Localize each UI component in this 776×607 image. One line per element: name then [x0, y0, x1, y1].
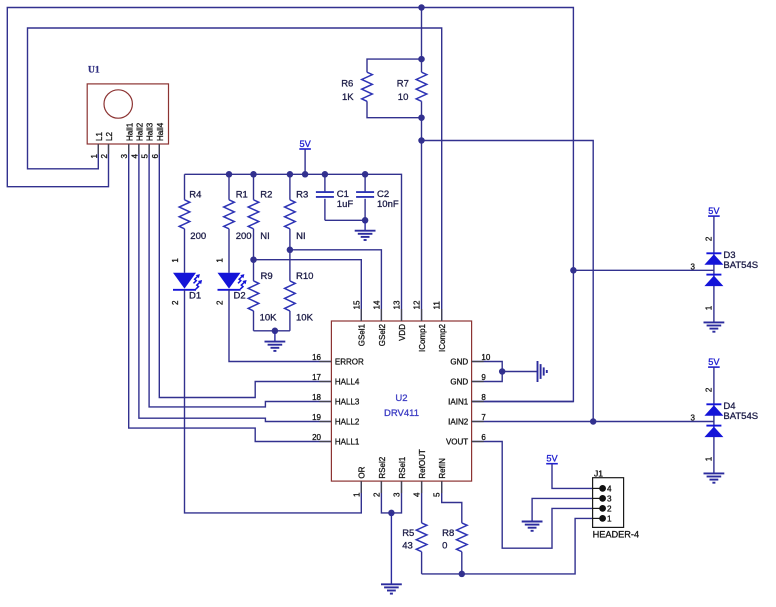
node junction GND pins [499, 368, 506, 375]
svg-text:1: 1 [171, 258, 180, 263]
pin 6 stub of U1 [158, 144, 160, 154]
node junction R1 [226, 171, 233, 178]
svg-text:GND: GND [450, 378, 468, 387]
node junction R9 R10 ground [272, 328, 279, 335]
svg-text:RSel2: RSel2 [378, 456, 387, 478]
wire D2 cathode to ERROR pin [229, 290, 331, 362]
node junction IAIN2 [590, 418, 597, 425]
pin 15 GSel1 of U2 top [360, 309, 362, 321]
svg-text:NI: NI [296, 231, 306, 242]
wire IAIN1 to tall vertical [472, 401, 574, 403]
svg-text:2: 2 [607, 505, 612, 514]
wire R3 column [289, 174, 291, 200]
node junction C1 C2 ground [362, 217, 369, 224]
wire 5V stem [304, 149, 306, 174]
node junction tall vertical to D3 [570, 267, 577, 274]
node junction RSel ground [388, 510, 395, 517]
svg-text:R2: R2 [260, 190, 272, 201]
wire HALL2 net U1 pin4 to U2 pin19 [139, 144, 332, 422]
wire header pin 3 to ground [532, 498, 593, 521]
svg-text:1: 1 [90, 153, 99, 158]
wire R9 R10 bottom join [254, 330, 290, 332]
svg-text:6: 6 [151, 153, 160, 158]
pin 19 HALL2 of U2 left [319, 421, 331, 423]
pin 9 GND of U2 right [472, 381, 484, 383]
svg-text:5V: 5V [546, 454, 558, 464]
svg-text:1uF: 1uF [337, 199, 354, 210]
LED D1 [173, 273, 196, 289]
svg-text:D2: D2 [234, 290, 246, 301]
wire inner loop from U1 pin 1 to IComp2 [28, 28, 442, 321]
svg-text:2: 2 [705, 236, 714, 241]
svg-text:8: 8 [481, 393, 486, 402]
svg-text:BAT54S: BAT54S [723, 411, 758, 422]
ground right of GND pins [537, 361, 539, 382]
wire IAIN2 to D4 pin 3 [472, 421, 714, 423]
wire RefIN jog to R8 [442, 481, 462, 523]
svg-text:HALL1: HALL1 [335, 438, 360, 447]
wire HALL4 net U1 pin6 to U2 pin17 [159, 144, 331, 398]
svg-text:Hall3: Hall3 [146, 122, 155, 141]
svg-text:HALL2: HALL2 [335, 418, 360, 427]
ground below D4 [704, 472, 725, 474]
svg-text:NI: NI [260, 231, 270, 242]
svg-text:10K: 10K [260, 313, 278, 324]
node junction R5 R8 [459, 571, 466, 578]
pin 6 VOUT of U2 right [472, 441, 484, 443]
resistor R9 [248, 281, 259, 311]
svg-text:IAIN1: IAIN1 [448, 398, 469, 407]
svg-text:14: 14 [372, 300, 381, 309]
svg-text:16: 16 [312, 353, 321, 362]
op-amp U2 DRV411 body [331, 321, 471, 481]
resistor R4 [179, 200, 190, 229]
svg-text:10: 10 [398, 92, 409, 103]
svg-text:VOUT: VOUT [446, 438, 468, 447]
svg-text:Hall4: Hall4 [156, 122, 165, 141]
svg-text:IComp1: IComp1 [418, 323, 427, 352]
node junction R2 [250, 171, 257, 178]
svg-text:1: 1 [352, 492, 361, 497]
resistor R2 [248, 200, 259, 229]
wire tap to GSel2 [290, 250, 382, 321]
resistor R10 [285, 281, 296, 311]
svg-text:18: 18 [312, 393, 321, 402]
svg-text:5V: 5V [708, 206, 720, 216]
svg-text:11: 11 [433, 301, 442, 310]
wire VOUT to header pin 2 [472, 442, 593, 549]
svg-text:0: 0 [442, 540, 447, 551]
svg-text:HEADER-4: HEADER-4 [593, 530, 639, 540]
pin 10 GND of U2 right [472, 361, 484, 363]
pin 11 IComp2 of U2 top [441, 309, 443, 321]
svg-text:10nF: 10nF [377, 199, 399, 210]
svg-text:HALL4: HALL4 [335, 378, 360, 387]
ground below R9 R10 [274, 331, 276, 342]
svg-text:J1: J1 [594, 468, 603, 478]
resistor R7 [416, 72, 427, 101]
pin 5 RefIN of U2 bottom [441, 481, 443, 493]
ground below C2 [364, 220, 366, 230]
connector J1 HEADER-4 [593, 478, 624, 528]
svg-text:1: 1 [705, 456, 714, 461]
svg-text:L1: L1 [95, 132, 104, 141]
pin 2 stub of U1 [108, 144, 110, 154]
svg-text:RSel1: RSel1 [398, 456, 407, 478]
svg-text:R7: R7 [397, 79, 409, 90]
pin 3 stub of U1 [128, 144, 130, 154]
svg-text:7: 7 [481, 413, 486, 422]
wire R6 branch [367, 59, 422, 72]
capacitor C2 [364, 174, 366, 192]
pin 7 IAIN2 of U2 right [472, 421, 484, 423]
resistor R5 [416, 523, 427, 552]
ground below RSel pins [390, 513, 392, 584]
svg-text:17: 17 [312, 373, 321, 382]
svg-text:R6: R6 [341, 79, 353, 90]
wire R1 column [228, 174, 230, 200]
svg-text:GSel1: GSel1 [358, 323, 367, 346]
svg-text:3: 3 [393, 492, 402, 497]
svg-text:200: 200 [236, 231, 252, 242]
resistor R1 [224, 200, 235, 229]
svg-text:R9: R9 [261, 271, 273, 282]
wire branch to D3 pin 3 [573, 269, 714, 271]
wire R8 bottom [461, 552, 463, 574]
svg-text:2: 2 [100, 153, 109, 158]
wire C1 C2 bottoms [325, 219, 365, 221]
svg-text:VDD: VDD [398, 324, 407, 341]
pin 20 HALL1 of U2 left [319, 441, 331, 443]
svg-text:L2: L2 [105, 132, 114, 141]
node junction R10 tap to GSel2 [287, 247, 294, 254]
svg-text:1: 1 [607, 515, 612, 524]
svg-text:3: 3 [691, 262, 696, 271]
pin 3 RSel1 of U2 bottom [401, 481, 403, 493]
svg-text:6: 6 [481, 433, 486, 442]
svg-text:3: 3 [607, 495, 612, 504]
diode D3 BAT54S dual [704, 216, 723, 322]
svg-text:10K: 10K [296, 313, 314, 324]
svg-text:DRV411: DRV411 [384, 408, 419, 419]
svg-text:R5: R5 [402, 528, 414, 539]
svg-text:5: 5 [141, 153, 150, 158]
svg-text:R10: R10 [296, 271, 313, 282]
svg-text:4: 4 [607, 485, 612, 494]
wire RefOUT through R5 to net [421, 481, 423, 523]
svg-text:2: 2 [216, 300, 225, 305]
svg-text:2: 2 [705, 387, 714, 392]
pin 5 stub of U1 [148, 144, 150, 154]
wire R10 bottom [289, 311, 291, 331]
wire HALL1 net U1 pin3 to U2 pin20 [129, 144, 332, 442]
svg-text:GSel2: GSel2 [378, 323, 387, 346]
capacitor C1 [324, 174, 326, 192]
wire vertical from top rail through R7 to IComp1 [421, 8, 423, 73]
resistor R3 [285, 200, 296, 229]
svg-text:IAIN2: IAIN2 [448, 418, 469, 427]
node junction R6 bottom [418, 114, 425, 121]
svg-text:200: 200 [190, 231, 206, 242]
svg-text:RefOUT: RefOUT [418, 449, 427, 478]
ground below D3 [704, 321, 725, 323]
wire 5V to header pin 4 [552, 464, 593, 489]
ground below header pin 3 [522, 521, 543, 523]
svg-text:43: 43 [402, 540, 413, 551]
node junction R3 [287, 171, 294, 178]
svg-text:U1: U1 [88, 65, 100, 75]
node junction C2 [362, 171, 369, 178]
svg-text:R3: R3 [296, 190, 308, 201]
pin 13 VDD of U2 top [401, 309, 403, 321]
pin 14 GSel2 of U2 top [380, 309, 382, 321]
resistor R6 [362, 72, 373, 101]
svg-text:2: 2 [372, 492, 381, 497]
wire HALL3 net U1 pin5 to U2 pin18 [149, 144, 331, 407]
wire GND pins 10 and 9 [472, 362, 503, 382]
svg-text:3: 3 [120, 153, 129, 158]
svg-text:12: 12 [413, 300, 422, 309]
node junction 5V [302, 171, 309, 178]
pin 4 RefOUT of U2 bottom [421, 481, 423, 493]
wire 5V bus to VDD [185, 174, 402, 321]
svg-text:U2: U2 [395, 393, 407, 404]
node junction top rail to R7 branch [418, 4, 425, 11]
svg-text:19: 19 [312, 413, 321, 422]
svg-text:RefIN: RefIN [438, 458, 447, 479]
svg-text:ERROR: ERROR [335, 358, 364, 367]
svg-text:3: 3 [691, 413, 696, 422]
wire R9 bottom [253, 311, 255, 331]
svg-text:IComp2: IComp2 [438, 323, 447, 352]
wire R5 bottom to header pin 1 [422, 518, 593, 574]
svg-text:4: 4 [413, 492, 422, 497]
wire D1 cathode to OR pin [185, 290, 362, 513]
wire R2 column [253, 174, 255, 200]
wire RSel2 RSel1 join [381, 481, 401, 513]
wire R4 column [184, 174, 186, 200]
node junction to IAIN2 branch [418, 137, 425, 144]
diode D4 BAT54S dual [704, 367, 723, 473]
pin 12 IComp1 of U2 top [421, 309, 423, 321]
svg-text:D1: D1 [189, 290, 201, 301]
svg-text:1: 1 [705, 305, 714, 310]
svg-text:20: 20 [312, 433, 321, 442]
svg-text:5V: 5V [708, 357, 720, 367]
svg-text:Hall1: Hall1 [125, 122, 134, 141]
node junction C1 [322, 171, 329, 178]
pin 17 HALL4 of U2 left [319, 381, 331, 383]
resistor R8 [457, 523, 468, 552]
svg-text:2: 2 [171, 300, 180, 305]
svg-text:5V: 5V [299, 139, 311, 149]
svg-text:1: 1 [216, 258, 225, 263]
wire outer loop from U1 pin 2 to top rail [7, 8, 573, 402]
svg-text:GND: GND [450, 358, 468, 367]
svg-text:1K: 1K [342, 92, 354, 103]
svg-text:Hall2: Hall2 [136, 122, 145, 141]
svg-text:10: 10 [481, 353, 490, 362]
wire to ground symbol [502, 371, 537, 373]
pin 16 ERROR of U2 left [319, 361, 331, 363]
svg-text:R8: R8 [442, 528, 454, 539]
svg-text:15: 15 [352, 300, 361, 309]
LED D2 [218, 273, 241, 289]
pin 1 OR of U2 bottom [360, 481, 362, 493]
pin 4 stub of U1 [138, 144, 140, 154]
pin 1 stub of U1 [97, 144, 99, 154]
svg-text:OR: OR [358, 466, 367, 478]
svg-text:R1: R1 [236, 190, 248, 201]
svg-text:BAT54S: BAT54S [723, 260, 758, 271]
svg-text:9: 9 [481, 373, 486, 382]
hall sensor U1 [87, 84, 168, 144]
node junction R6 top [418, 56, 425, 63]
wire tap to GSel1 [254, 260, 362, 321]
svg-text:5: 5 [433, 492, 442, 497]
svg-text:HALL3: HALL3 [335, 398, 360, 407]
pin 2 RSel2 of U2 bottom [380, 481, 382, 493]
wire from R7 bottom junction to IAIN2 vertical [422, 141, 594, 422]
pin 8 IAIN1 of U2 right [472, 401, 484, 403]
pin 18 HALL3 of U2 left [319, 401, 331, 403]
svg-text:R4: R4 [189, 190, 201, 201]
svg-text:13: 13 [393, 300, 402, 309]
node junction R9 tap to GSel1 [250, 256, 257, 263]
svg-text:4: 4 [130, 153, 139, 158]
